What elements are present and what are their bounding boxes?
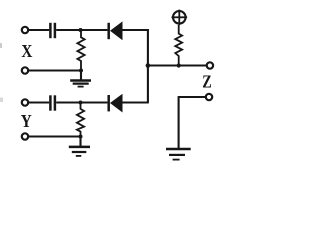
svg-text:Y: Y xyxy=(21,111,32,131)
svg-text:Z: Z xyxy=(202,72,212,92)
svg-text:X: X xyxy=(21,41,32,61)
